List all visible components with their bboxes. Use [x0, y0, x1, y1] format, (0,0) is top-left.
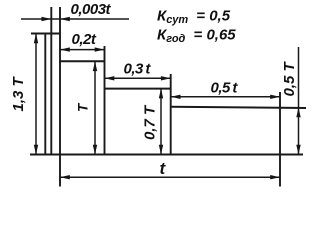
step3 top line: [104, 88, 171, 90]
arrow t right: [270, 175, 280, 179]
svg-text:0,5t: 0,5t: [211, 80, 239, 97]
baseline: [30, 154, 303, 156]
arrow 0,7T top: [159, 89, 163, 99]
step2 right edge: [104, 46, 106, 154]
svg-text:0,3t: 0,3t: [124, 61, 152, 78]
dim line 0,003t: [21, 18, 129, 20]
arrow 0,5T bottom: [296, 145, 300, 155]
arrow 0,5t left: [171, 95, 181, 99]
dim line 0,5T: [298, 47, 300, 155]
svg-text:t: t: [160, 159, 167, 178]
arrow 1,3T top: [34, 34, 38, 44]
step4 top line: [171, 107, 307, 108]
arrow 0,3t right: [161, 76, 171, 80]
arrow t left: [60, 175, 70, 179]
bar top line: [31, 33, 61, 35]
step3 right edge: [170, 74, 172, 154]
svg-text:0,2t: 0,2t: [72, 31, 97, 48]
arrow 0,5T top: [296, 108, 300, 118]
arrow 0,003t right (points left at bar right edge): [60, 17, 70, 21]
dim line t: [60, 176, 280, 178]
dim line T: [94, 61, 96, 154]
svg-text:0,5 T: 0,5 T: [281, 60, 298, 96]
dim line 0,3t: [105, 77, 171, 79]
axis vertical line: [44, 34, 46, 155]
svg-text:0,7 T: 0,7 T: [142, 104, 159, 140]
arrow 0,3t left: [105, 76, 115, 80]
arrow 0,5t right: [270, 95, 280, 99]
svg-text:T: T: [76, 102, 91, 112]
arrow 0,2t right: [95, 47, 105, 51]
arrow 1,3T bottom: [34, 145, 38, 155]
svg-text:1,3 T: 1,3 T: [10, 75, 27, 111]
dim line 0,5t: [171, 96, 280, 98]
dim line 0,2t: [60, 49, 105, 51]
arrow 0,2t left: [60, 47, 70, 51]
arrow 0,7T bottom: [159, 145, 163, 155]
step4 right edge: [279, 92, 281, 187]
dim line 1,3T: [35, 34, 37, 155]
bar left edge: [50, 7, 52, 154]
arrow T top: [93, 61, 97, 71]
svg-text:Ксут = 0,5: Ксут = 0,5: [157, 8, 231, 27]
svg-text:0,003t: 0,003t: [71, 1, 112, 18]
svg-text:Кгод = 0,65: Кгод = 0,65: [157, 27, 236, 46]
step2 top line: [60, 60, 105, 62]
arrow 0,003t left (points right at bar left edge): [42, 17, 52, 21]
bar right edge: [59, 7, 61, 187]
dim line 0,7T: [160, 89, 162, 155]
arrow T bottom: [93, 145, 97, 155]
